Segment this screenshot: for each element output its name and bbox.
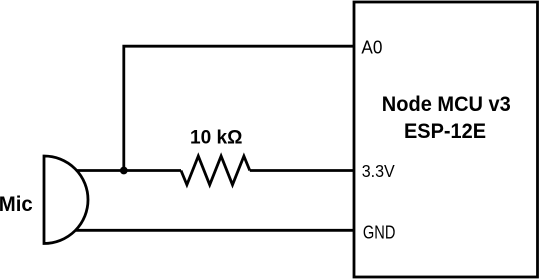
svg-text:A0: A0 <box>361 38 382 58</box>
IC U1 NodeMCU box <box>354 2 538 277</box>
wire mic output to resistor <box>76 169 181 172</box>
resistor R1 zigzag <box>181 156 250 185</box>
wire resistor to 3.3V pin <box>250 169 354 172</box>
svg-text:ESP-12E: ESP-12E <box>404 120 486 143</box>
wire mic top to A0 corner (vertical) <box>124 46 354 170</box>
svg-text:Mic: Mic <box>0 193 33 216</box>
microphone MIC1 body <box>44 156 88 244</box>
junction node dot <box>120 167 128 175</box>
svg-text:Node MCU v3: Node MCU v3 <box>382 93 511 116</box>
svg-text:GND: GND <box>363 222 396 242</box>
svg-text:3.3V: 3.3V <box>362 161 395 181</box>
wire mic bottom to GND pin <box>76 229 354 232</box>
svg-text:10 kΩ: 10 kΩ <box>190 127 243 149</box>
